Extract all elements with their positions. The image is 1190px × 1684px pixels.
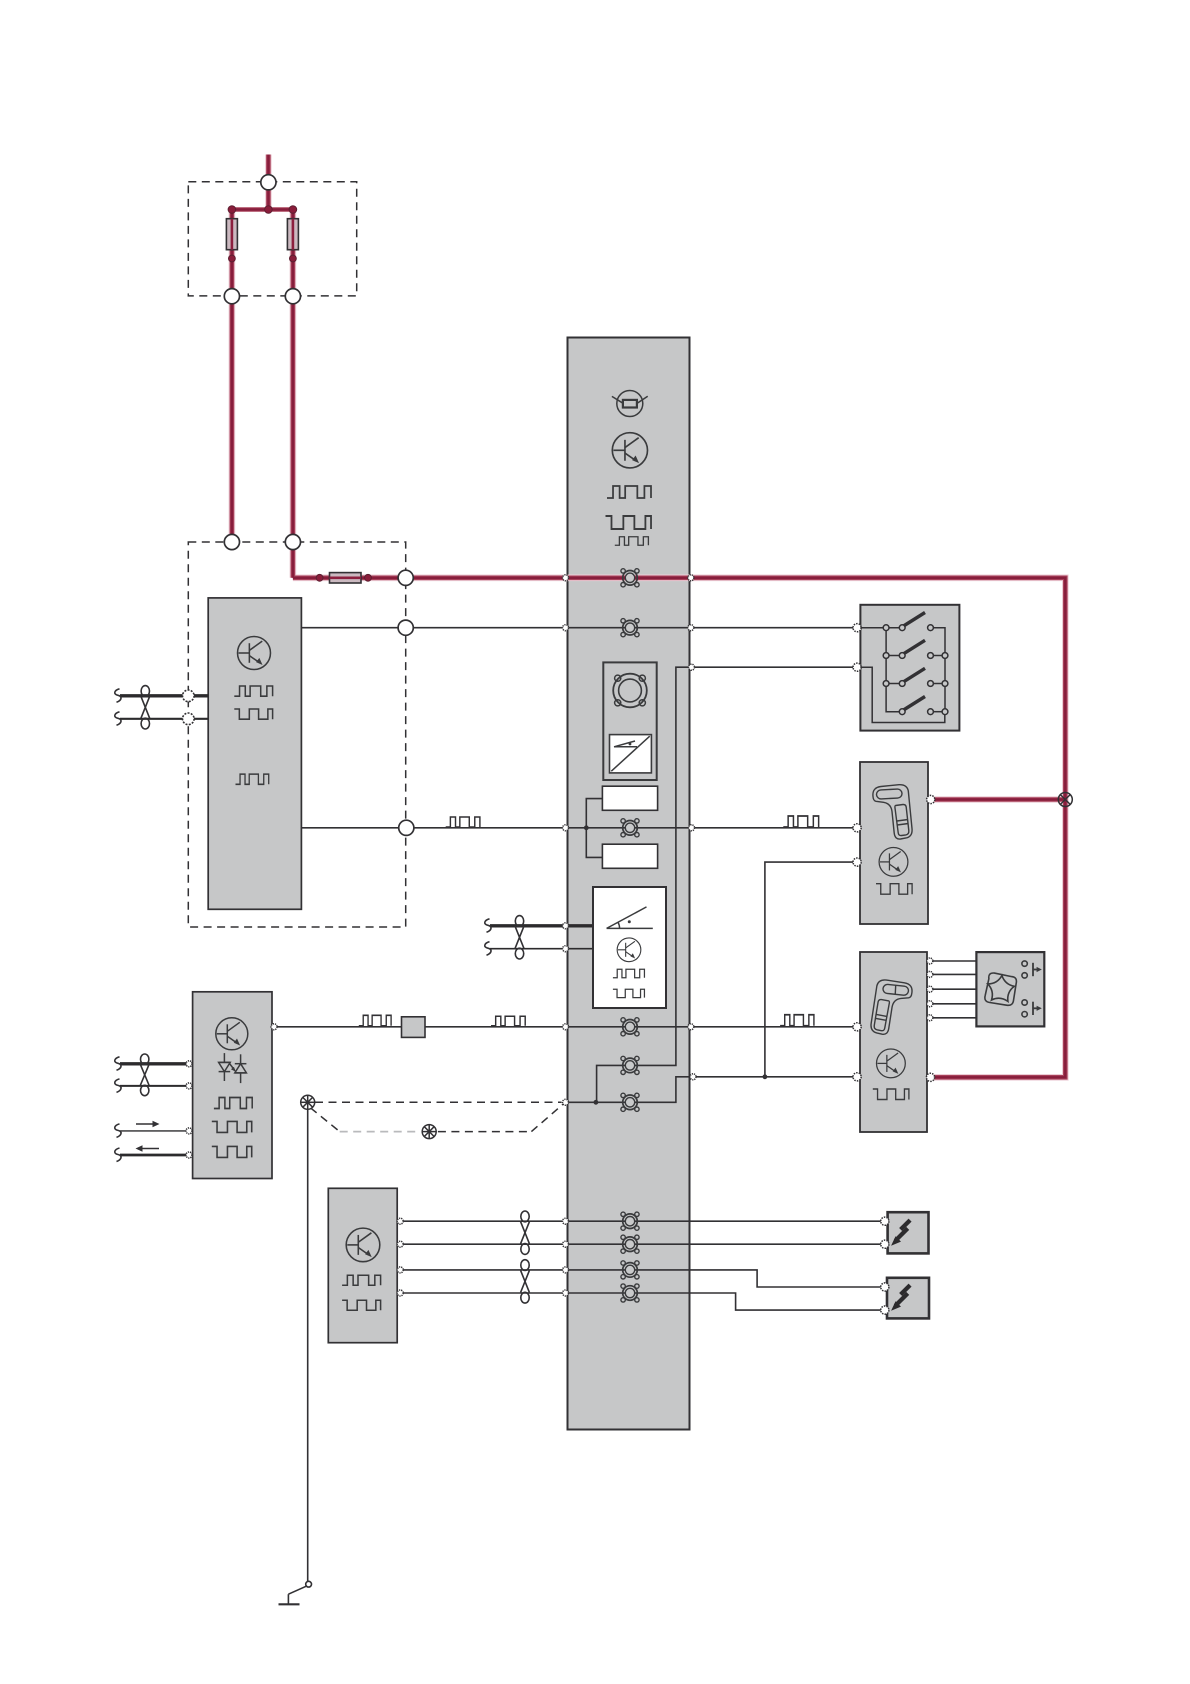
dashed diagonal bbox=[310, 1108, 339, 1132]
column bulkhead connectors bbox=[621, 569, 639, 1302]
central control module (grey column) bbox=[568, 338, 690, 1430]
waveform (G1) bbox=[876, 884, 912, 895]
waveform (sensor block 2) bbox=[613, 989, 645, 997]
dashed wire mid segment bbox=[438, 1131, 532, 1133]
wire: unit A out 1 to switch pack bbox=[301, 627, 857, 629]
ground wire bbox=[307, 1109, 309, 1581]
white relay rect A bbox=[602, 786, 657, 810]
switch blades bbox=[904, 613, 926, 711]
knob connector pins upper bbox=[1022, 961, 1042, 978]
waveform (G2) bbox=[873, 1089, 909, 1100]
relay branch wiring bbox=[584, 799, 603, 858]
dashed wire light segment bbox=[340, 1131, 421, 1133]
wire: column pin to G2 lower input, via step bbox=[566, 1077, 694, 1103]
transistor symbol (unit B) bbox=[216, 1018, 248, 1050]
load box K1 (grey box) bbox=[888, 1212, 929, 1253]
dashed diagonal to column bbox=[531, 1104, 563, 1132]
wire: unit C out 2 to K1 bbox=[397, 1243, 885, 1245]
waveform (sensor block 1) bbox=[613, 969, 645, 977]
waveform (unit A 1) bbox=[234, 686, 272, 696]
knob connector pins lower bbox=[1022, 1000, 1042, 1017]
connector nodes (boxes) bbox=[183, 624, 935, 1315]
knob icon bbox=[984, 972, 1018, 1006]
wire: column inner line to switch pack input 2 bbox=[597, 667, 690, 1102]
waveform on wire (unit A out 2) bbox=[446, 817, 480, 827]
red wire core bbox=[230, 155, 1065, 1078]
speaker symbol bbox=[613, 674, 647, 708]
transistor symbol (unit C) bbox=[346, 1228, 380, 1262]
transistor symbol (column) bbox=[612, 433, 647, 468]
light sensor symbol bbox=[612, 391, 648, 417]
switch ladder wiring bbox=[860, 627, 886, 629]
serial line out of unit B bbox=[120, 1154, 193, 1157]
dashed box (fuse holder) top left bbox=[188, 182, 356, 296]
waveform on wire (G2 input) bbox=[780, 1015, 814, 1026]
waveform (unit C 1) bbox=[342, 1275, 380, 1285]
gear lever icon (G2, rotated) bbox=[871, 979, 913, 1035]
wire: unit C out 3 to K2 bbox=[397, 1270, 885, 1287]
waveform on wire (unit B out, right) bbox=[491, 1016, 525, 1026]
waveform on wire (unit B out, left) bbox=[359, 1015, 391, 1026]
transistor symbol (G2) bbox=[877, 1049, 906, 1078]
waveform (column 3) bbox=[615, 537, 649, 545]
ground symbol bbox=[279, 1581, 312, 1604]
waveform (column 2) bbox=[606, 516, 652, 529]
red power wiring bbox=[230, 155, 1065, 1078]
twist symbol (unit C pair 1) bbox=[521, 1211, 530, 1254]
twist symbol (unit B pair) bbox=[140, 1054, 149, 1096]
white relay rect B bbox=[602, 844, 657, 868]
thick black input wires bbox=[120, 696, 593, 1155]
unit C internals bbox=[342, 1228, 380, 1310]
unit B internals bbox=[212, 1018, 252, 1158]
gear module G1 internals bbox=[873, 785, 912, 895]
wire-break squiggles bbox=[115, 689, 491, 1162]
switch terminals bbox=[883, 625, 948, 715]
waveform (unit B 2) bbox=[212, 1121, 252, 1132]
gear lever icon (G1) bbox=[873, 785, 912, 839]
inclination sensor block (white) bbox=[593, 887, 666, 1008]
waveform (unit B 3) bbox=[212, 1146, 252, 1157]
left control unit A (grey box) bbox=[208, 598, 301, 909]
wire: branch vertical to G1 input 2 bbox=[765, 862, 855, 1077]
connector nodes (small, column edges) bbox=[563, 575, 697, 1296]
wire: unit B output to G2 upper input bbox=[274, 1026, 857, 1028]
inline connector block on unit B output wire bbox=[402, 1017, 426, 1038]
antenna node X2 bbox=[422, 1125, 436, 1139]
fuse F3 (inline on feed wire) bbox=[330, 573, 362, 583]
transistor symbol (G1) bbox=[879, 848, 908, 877]
wires: G2 to knob box bbox=[927, 960, 976, 962]
waveform (unit C 2) bbox=[342, 1300, 380, 1310]
lightning bolt K2 bbox=[891, 1285, 910, 1311]
column internals bbox=[603, 391, 656, 781]
twist symbol (column sensor pair) bbox=[515, 916, 524, 959]
serial line into unit B bbox=[120, 1130, 193, 1132]
fuse F1 bbox=[226, 219, 237, 250]
dashed wire: antenna node to column bbox=[315, 1101, 562, 1103]
zener diode pair bbox=[219, 1053, 247, 1083]
bottom-left control unit C (grey box) bbox=[328, 1188, 397, 1342]
twisted pair into unit B bbox=[120, 1062, 193, 1065]
inner sub-module frame bbox=[603, 662, 656, 780]
lightning bolt K1 bbox=[891, 1220, 910, 1246]
knob box internals bbox=[984, 961, 1042, 1017]
serial direction arrows bbox=[136, 1121, 160, 1152]
waveform (unit B 1) bbox=[214, 1098, 252, 1109]
junction dot bbox=[594, 1100, 599, 1105]
waveform (column 1) bbox=[607, 486, 651, 498]
gear selector module G2 (grey box) bbox=[860, 952, 927, 1132]
load box K2 (grey box) bbox=[887, 1278, 929, 1319]
antenna node X1 bbox=[301, 1095, 315, 1109]
switch pack S1 (grey box) bbox=[860, 605, 959, 731]
gear selector module G1 (grey box) bbox=[860, 762, 928, 924]
red feed from battery bbox=[230, 155, 1065, 1078]
twist symbol (unit C pair 2) bbox=[521, 1260, 530, 1303]
dimmer square symbol bbox=[610, 735, 652, 773]
left control unit B (grey box) bbox=[193, 992, 272, 1179]
knob interface box (grey box) bbox=[976, 952, 1044, 1026]
dashed box around left control unit bbox=[188, 542, 405, 927]
wire: unit A out 2 to gear module G1 input 1 bbox=[301, 827, 857, 829]
dashed signal links bbox=[310, 1102, 563, 1131]
twisted pair into column sensor block bbox=[490, 924, 593, 927]
wire: unit C out 4 to K2 bbox=[397, 1293, 885, 1310]
transistor symbol (sensor block) bbox=[617, 938, 641, 962]
twist symbol (unit A pair) bbox=[141, 686, 150, 729]
unit A internals bbox=[234, 637, 272, 785]
connector nodes (big) bbox=[224, 175, 414, 836]
gear module G2 internals bbox=[871, 979, 913, 1099]
twisted pair into unit A bbox=[120, 694, 208, 697]
fuse F2 bbox=[287, 219, 298, 250]
waveform (unit A 2) bbox=[234, 709, 272, 719]
wire: unit C out 1 to K1 bbox=[397, 1220, 885, 1222]
switch pack internals bbox=[860, 613, 947, 723]
junction dots on red bus bbox=[228, 206, 371, 581]
waveform (unit A 3) bbox=[236, 774, 269, 784]
junction dot bbox=[763, 1074, 768, 1079]
red net junction X3 bbox=[1058, 793, 1072, 807]
waveform on wire (G1 input) bbox=[783, 816, 818, 827]
transistor symbol (unit A) bbox=[238, 637, 271, 670]
black wires bbox=[274, 628, 976, 1582]
